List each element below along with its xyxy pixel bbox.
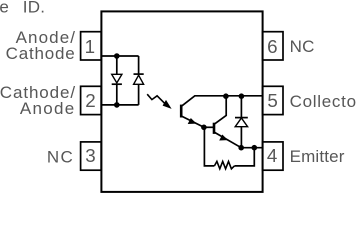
svg-text:1: 1 bbox=[85, 36, 95, 57]
svg-text:4: 4 bbox=[267, 145, 277, 166]
svg-text:2: 2 bbox=[85, 90, 95, 111]
svg-text:ID.: ID. bbox=[23, 0, 45, 16]
svg-text:Anode: Anode bbox=[20, 99, 76, 118]
svg-text:NC: NC bbox=[47, 148, 74, 167]
svg-text:e: e bbox=[0, 0, 9, 16]
svg-text:5: 5 bbox=[267, 90, 277, 111]
svg-text:3: 3 bbox=[85, 145, 95, 166]
svg-text:NC: NC bbox=[290, 37, 315, 56]
svg-text:6: 6 bbox=[267, 36, 277, 57]
svg-text:Emitter: Emitter bbox=[290, 147, 345, 166]
svg-text:Cathode: Cathode bbox=[6, 44, 76, 63]
svg-text:Collector: Collector bbox=[290, 92, 357, 111]
